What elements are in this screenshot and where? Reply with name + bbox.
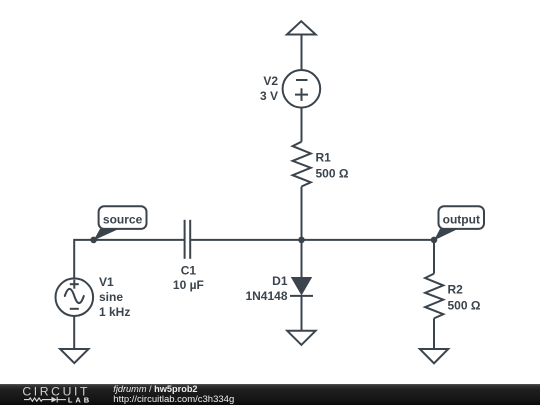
svg-text:C1: C1 <box>181 264 197 278</box>
wire R2 to ground <box>433 318 435 348</box>
wire V1 to ground <box>73 316 75 349</box>
svg-text:output: output <box>443 212 480 226</box>
diode D1 <box>290 277 313 296</box>
junction node center <box>298 237 305 244</box>
logo resistor-diode glyph <box>24 397 66 403</box>
wire R1 to center junction <box>301 187 303 240</box>
wire horizontal right segment (C1 to output node) <box>190 239 434 241</box>
label R1 value 500 Ohm <box>316 150 349 180</box>
footer bar <box>0 384 540 405</box>
label R2 value 500 Ohm <box>448 282 481 312</box>
svg-text:V1: V1 <box>99 275 114 289</box>
power flag (up arrow) at top of V2 <box>287 21 316 34</box>
svg-text:source: source <box>103 212 143 226</box>
capacitor C1 <box>185 220 191 259</box>
svg-text:500 Ω: 500 Ω <box>316 166 349 180</box>
label D1 1N4148 <box>245 274 287 303</box>
ground under R2 <box>420 349 448 363</box>
node flag source <box>90 206 146 243</box>
wire output node to R2 <box>433 240 435 274</box>
svg-text:V2: V2 <box>263 74 278 88</box>
resistor R2 <box>425 274 443 319</box>
node flag output <box>431 206 484 243</box>
label V2 value 3 V <box>260 74 278 103</box>
wire D1 to ground <box>301 296 303 331</box>
ground under D1 <box>287 331 315 345</box>
svg-text:D1: D1 <box>272 274 288 288</box>
svg-text:R2: R2 <box>448 282 464 296</box>
ground under V1 <box>60 349 88 363</box>
wire power flag to V2 <box>301 36 303 71</box>
resistor R1 <box>293 142 311 187</box>
svg-text:10 µF: 10 µF <box>173 278 204 292</box>
label C1 value 10 uF <box>173 264 204 293</box>
svg-text:1 kHz: 1 kHz <box>99 305 130 319</box>
svg-text:fjdrumm / hw5prob2: fjdrumm / hw5prob2 <box>113 384 197 394</box>
label V1 sine 1 kHz <box>99 275 130 319</box>
wire horizontal left segment (V1 riser to C1) <box>74 240 184 278</box>
svg-text:500 Ω: 500 Ω <box>448 298 481 312</box>
svg-text:R1: R1 <box>316 150 332 164</box>
svg-text:sine: sine <box>99 290 123 304</box>
wire junction to D1 <box>301 240 303 278</box>
svg-text:http://circuitlab.com/c3h334g: http://circuitlab.com/c3h334g <box>113 394 234 405</box>
voltage source V2 <box>283 70 321 108</box>
voltage source V1 (sine) <box>56 278 94 316</box>
svg-text:1N4148: 1N4148 <box>245 289 287 303</box>
wire V2 to R1 <box>301 108 303 142</box>
svg-text:LAB: LAB <box>68 396 92 405</box>
svg-text:3 V: 3 V <box>260 89 278 103</box>
